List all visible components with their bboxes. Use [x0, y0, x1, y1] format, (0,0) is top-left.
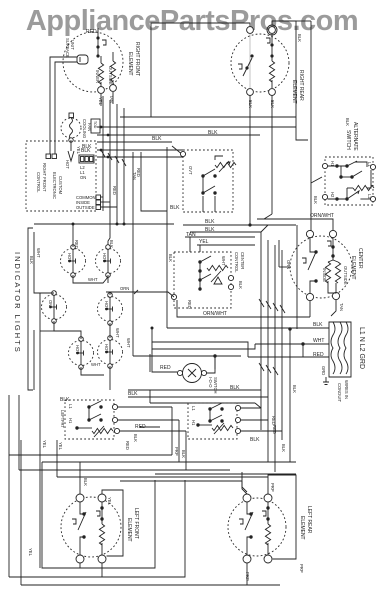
svg-text:RIGHT FRONT: RIGHT FRONT: [42, 163, 47, 192]
svg-text:RIGHT REAR: RIGHT REAR: [298, 70, 304, 101]
svg-text:HOT: HOT: [104, 344, 109, 353]
svg-text:HOT: HOT: [102, 253, 107, 262]
svg-text:ELEMENT: ELEMENT: [127, 52, 133, 76]
svg-text:UNIT: UNIT: [70, 40, 75, 50]
svg-text:ORN: ORN: [286, 260, 291, 269]
svg-text:OUTSIDE: OUTSIDE: [76, 205, 95, 210]
svg-text:ORN/WHT: ORN/WHT: [310, 213, 334, 219]
svg-text:ON: ON: [48, 300, 53, 306]
svg-text:BLK: BLK: [230, 385, 240, 391]
svg-text:PRP: PRP: [245, 572, 250, 581]
svg-text:SWITCH: SWITCH: [345, 130, 351, 150]
svg-text:L1: L1: [367, 162, 372, 167]
svg-text:BLK: BLK: [297, 34, 302, 42]
svg-text:BLK: BLK: [270, 100, 275, 108]
svg-text:INDICATOR LIGHTS: INDICATOR LIGHTS: [13, 252, 22, 354]
svg-text:H2: H2: [330, 192, 335, 198]
svg-text:BLK: BLK: [181, 450, 186, 458]
svg-text:BLK: BLK: [281, 444, 286, 452]
svg-text:SURFACE: SURFACE: [65, 38, 70, 58]
svg-text:RED: RED: [136, 168, 141, 177]
svg-text:L2: L2: [367, 194, 372, 199]
svg-text:L1 N L2 GRD: L1 N L2 GRD: [358, 327, 365, 369]
svg-text:BLK: BLK: [313, 196, 318, 204]
svg-text:YEL: YEL: [199, 239, 209, 245]
svg-text:RED: RED: [125, 441, 130, 450]
svg-text:ON: ON: [80, 175, 86, 180]
svg-text:CONTROL: CONTROL: [234, 252, 239, 273]
svg-text:HOT: HOT: [67, 253, 72, 262]
svg-text:RIGHT FRONT: RIGHT FRONT: [134, 42, 140, 76]
svg-text:RED: RED: [74, 240, 79, 249]
svg-text:YEL: YEL: [58, 442, 63, 451]
svg-text:WIRES IN: WIRES IN: [344, 380, 349, 399]
svg-text:PRP: PRP: [299, 564, 304, 573]
svg-text:CONTROL: CONTROL: [36, 172, 41, 193]
svg-text:COOLING: COOLING: [82, 119, 87, 138]
svg-text:BLK: BLK: [81, 148, 91, 154]
svg-text:BLK: BLK: [250, 437, 260, 443]
svg-text:YEL: YEL: [42, 440, 47, 449]
svg-text:ELECTRONIC: ELECTRONIC: [52, 172, 57, 199]
svg-text:BLK: BLK: [109, 240, 114, 248]
svg-text:WHT: WHT: [126, 338, 131, 348]
svg-text:PRP: PRP: [174, 447, 179, 456]
svg-text:HOT: HOT: [65, 160, 70, 169]
svg-text:RED: RED: [112, 186, 117, 195]
svg-text:YEL: YEL: [28, 548, 33, 557]
svg-text:OVT: OVT: [188, 166, 193, 175]
svg-text:BLK: BLK: [345, 118, 350, 126]
svg-text:BLK: BLK: [313, 322, 323, 328]
svg-text:ORN/WHT: ORN/WHT: [203, 311, 227, 317]
svg-text:OUTSIDE: OUTSIDE: [343, 266, 348, 285]
svg-text:RED: RED: [272, 425, 277, 434]
svg-text:LEFT REAR: LEFT REAR: [306, 506, 312, 534]
svg-text:ELEMENT: ELEMENT: [299, 516, 305, 540]
svg-text:BLK: BLK: [29, 256, 34, 264]
svg-text:CONDUIT: CONDUIT: [337, 383, 342, 403]
svg-text:BLK: BLK: [248, 100, 253, 108]
svg-text:BLK: BLK: [152, 136, 162, 142]
svg-text:BLK: BLK: [128, 391, 138, 397]
svg-text:TOD: TOD: [93, 121, 97, 129]
svg-text:BLK: BLK: [83, 478, 88, 486]
svg-text:INSIDE: INSIDE: [322, 268, 327, 282]
svg-text:HOT: HOT: [104, 301, 109, 310]
svg-text:WHT: WHT: [91, 362, 101, 367]
svg-text:BLK: BLK: [133, 434, 138, 442]
svg-text:WHT: WHT: [36, 248, 41, 258]
svg-text:YEL: YEL: [107, 497, 112, 506]
svg-text:WHT: WHT: [313, 338, 324, 344]
svg-text:BLK: BLK: [170, 205, 180, 211]
svg-text:I-O-O: I-O-O: [208, 377, 213, 388]
svg-text:BLK: BLK: [168, 254, 173, 262]
svg-text:OUTSIDE: OUTSIDE: [108, 66, 113, 85]
svg-text:BLK: BLK: [238, 281, 243, 289]
svg-text:PRP: PRP: [270, 483, 275, 492]
svg-text:ALTERNATE: ALTERNATE: [352, 122, 358, 151]
svg-text:LEFT FRONT: LEFT FRONT: [133, 508, 139, 539]
svg-text:SWITCH: SWITCH: [213, 377, 218, 394]
svg-text:CUSTOM: CUSTOM: [58, 176, 63, 195]
svg-text:YEL: YEL: [98, 97, 103, 106]
svg-text:RED: RED: [160, 365, 171, 371]
svg-text:CENTER: CENTER: [357, 248, 363, 269]
svg-text:L1: L1: [191, 406, 196, 411]
svg-text:H1: H1: [191, 420, 196, 426]
svg-text:ORN: ORN: [120, 286, 129, 291]
svg-text:L1: L1: [68, 404, 73, 409]
svg-text:WHT: WHT: [88, 277, 98, 282]
svg-text:ELEMENT: ELEMENT: [350, 256, 356, 280]
svg-text:CENTER: CENTER: [240, 252, 245, 269]
svg-text:H1: H1: [68, 418, 73, 424]
svg-text:BLK: BLK: [208, 130, 218, 136]
svg-text:BLK: BLK: [205, 219, 215, 225]
svg-text:RED: RED: [86, 29, 97, 35]
svg-text:INNER: INNER: [95, 70, 100, 83]
svg-text:WHT: WHT: [115, 328, 120, 338]
svg-text:FRT: FRT: [60, 420, 65, 429]
svg-text:HOT: HOT: [75, 345, 80, 354]
svg-text:WHT: WHT: [221, 256, 226, 266]
svg-text:ELEMENT: ELEMENT: [126, 518, 132, 542]
svg-text:TAN: TAN: [186, 232, 196, 238]
svg-text:TAN: TAN: [339, 303, 344, 311]
svg-text:BLK: BLK: [292, 385, 297, 393]
svg-text:BLK: BLK: [205, 227, 215, 233]
svg-text:GRD: GRD: [321, 366, 326, 375]
svg-text:RED: RED: [187, 300, 192, 309]
